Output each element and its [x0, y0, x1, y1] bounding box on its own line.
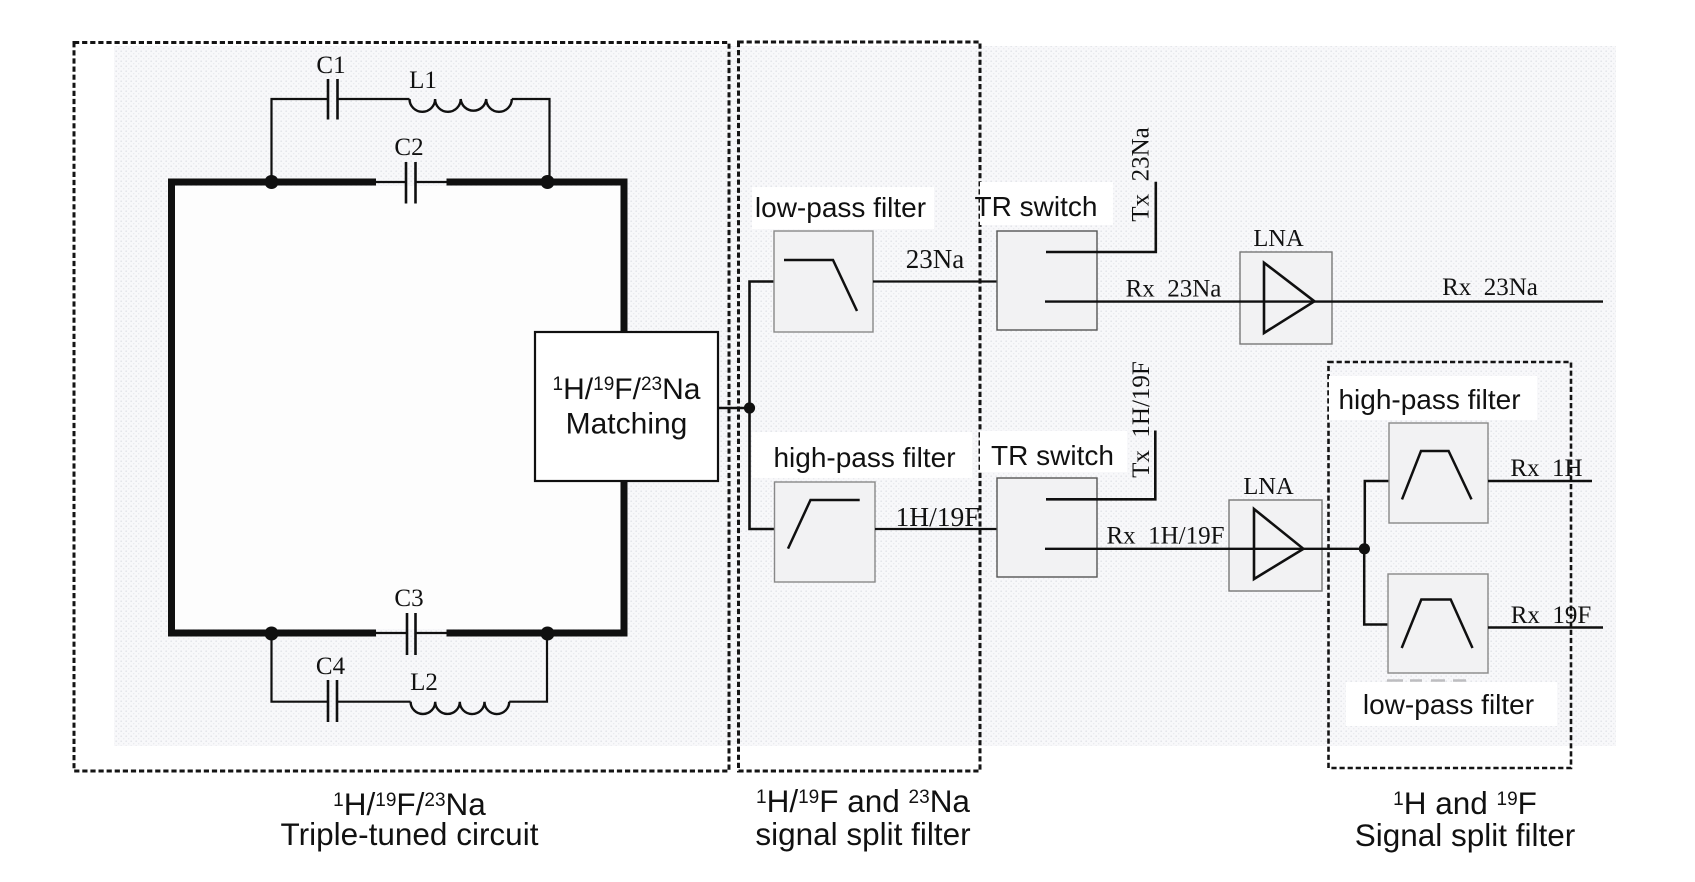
svg-text:high-pass filter: high-pass filter	[1338, 384, 1520, 415]
wire: branch down to band-pass (low) filter	[1364, 549, 1390, 625]
svg-text:LNA: LNA	[1243, 473, 1294, 500]
ghost artifact above low-pass label	[1387, 679, 1466, 682]
svg-text:23Na: 23Na	[906, 244, 964, 274]
svg-text:Rx 19F: Rx 19F	[1511, 602, 1592, 629]
label high-pass filter (middle) on white strip	[752, 432, 972, 478]
svg-text:Triple-tuned circuit: Triple-tuned circuit	[281, 816, 539, 852]
outer dashed box: triple-tuned circuit section	[74, 43, 729, 772]
block: LNA box (top)	[1240, 252, 1332, 344]
caption: middle signal split filter	[755, 783, 970, 852]
label TR switch (top) on white strip	[975, 182, 1113, 225]
svg-text:C2: C2	[394, 134, 423, 161]
coil loop bottom wire left segment (thick)	[168, 630, 376, 637]
wire: Tx line of bottom TR switch	[1046, 431, 1155, 500]
svg-text:C3: C3	[394, 585, 423, 612]
capacitor C2	[406, 162, 416, 204]
block: high-pass filter box	[775, 482, 876, 582]
svg-text:Tx 1H/19F: Tx 1H/19F	[1128, 361, 1155, 478]
inductor L2	[411, 702, 510, 714]
node: split junction dot	[744, 402, 755, 413]
white interior of coil loop	[175, 186, 620, 629]
wire: thin leads of capacitor C3	[376, 632, 447, 634]
svg-text:LNA: LNA	[1253, 225, 1304, 252]
caption: right signal split filter	[1355, 785, 1576, 853]
wire: Rx line bottom TR switch through LNA to split node	[1045, 548, 1364, 550]
svg-text:Rx 23Na: Rx 23Na	[1126, 276, 1222, 303]
svg-text:1H/19F and 23Na: 1H/19F and 23Na	[756, 783, 970, 819]
coil loop top wire right segment (thick)	[447, 179, 628, 186]
wire: vertical trunk to both filters	[750, 282, 775, 530]
wire: low-pass filter output to TR switch	[873, 280, 1038, 282]
capacitor C3	[407, 613, 416, 655]
node: right split junction dot	[1359, 543, 1370, 554]
coil loop right vertical lower segment (thick)	[621, 479, 628, 637]
wire: branch up to band-pass (high) filter	[1365, 481, 1392, 549]
wire: Tx line of top TR switch	[1046, 182, 1156, 252]
op-amp triangle bottom LNA	[1254, 509, 1303, 579]
svg-text:L1: L1	[409, 67, 437, 94]
svg-text:TR switch: TR switch	[991, 440, 1114, 471]
label low-pass filter (middle) on white strip	[752, 187, 934, 229]
wire: Rx line top TR switch through LNA to output	[1045, 300, 1603, 302]
label high-pass filter (right) on white strip	[1329, 376, 1537, 420]
svg-text:L2: L2	[410, 669, 438, 696]
dashed box: 1H and 19F signal split filter section (right)	[1329, 362, 1572, 768]
op-amp triangle top LNA	[1264, 263, 1314, 333]
block: band-pass filter box (upper right)	[1389, 423, 1488, 523]
svg-text:high-pass filter: high-pass filter	[773, 442, 955, 473]
svg-text:Rx 23Na: Rx 23Na	[1442, 274, 1538, 301]
svg-text:signal split filter: signal split filter	[755, 816, 970, 852]
svg-text:1H/19F/23Na: 1H/19F/23Na	[553, 373, 701, 406]
wire: Rx 19F output	[1488, 626, 1603, 628]
svg-text:TR switch: TR switch	[975, 191, 1098, 222]
wire: thin leads of capacitor C2	[376, 181, 447, 183]
svg-text:Matching: Matching	[566, 408, 688, 441]
coil loop bottom wire right segment (thick)	[447, 630, 628, 637]
capacitor C1	[328, 79, 338, 120]
dashed box: signal split filter section (middle)	[739, 42, 981, 771]
scanned figure light-gray background patch	[114, 46, 1616, 746]
block: 1H/19F/23Na Matching box	[535, 332, 718, 481]
label low-pass filter (right) on white strip	[1346, 682, 1557, 726]
caption: triple-tuned circuit	[281, 786, 539, 852]
block: LNA box (bottom)	[1229, 500, 1322, 591]
wire: matching box output to split node	[718, 407, 750, 409]
coil loop top wire left segment (thick)	[168, 179, 376, 186]
wire: Rx 1H output	[1488, 480, 1592, 482]
svg-text:low-pass filter: low-pass filter	[755, 192, 926, 223]
wire: high-pass filter output to TR switch	[875, 528, 1036, 530]
node junction dot top-right	[541, 175, 555, 189]
svg-text:Rx 1H: Rx 1H	[1510, 455, 1582, 482]
svg-text:low-pass filter: low-pass filter	[1363, 689, 1534, 720]
wire: bottom branch with C4 and L2	[272, 633, 548, 702]
svg-text:C4: C4	[316, 653, 346, 680]
svg-text:Rx 1H/19F: Rx 1H/19F	[1106, 523, 1224, 550]
label TR switch (bottom) on white strip	[980, 431, 1127, 472]
inductor L1	[410, 99, 512, 112]
wire: top branch with C1 and L1	[272, 99, 550, 182]
block: TR switch box (top)	[997, 231, 1097, 330]
svg-text:C1: C1	[316, 52, 345, 79]
block: band-pass filter box (lower right)	[1388, 574, 1488, 673]
block: low-pass filter box	[774, 231, 873, 332]
node junction dot bottom-right	[541, 627, 555, 641]
node junction dot bottom-left	[265, 627, 279, 641]
svg-text:Signal split filter: Signal split filter	[1355, 817, 1576, 853]
coil loop left vertical wire (thick)	[168, 179, 175, 637]
svg-text:1H/19F: 1H/19F	[895, 501, 979, 532]
capacitor C4	[328, 680, 337, 722]
node junction dot top-left	[265, 175, 279, 189]
coil loop right vertical upper segment (thick)	[621, 179, 628, 335]
svg-text:Tx 23Na: Tx 23Na	[1128, 127, 1155, 221]
block: TR switch box (bottom)	[997, 478, 1097, 577]
